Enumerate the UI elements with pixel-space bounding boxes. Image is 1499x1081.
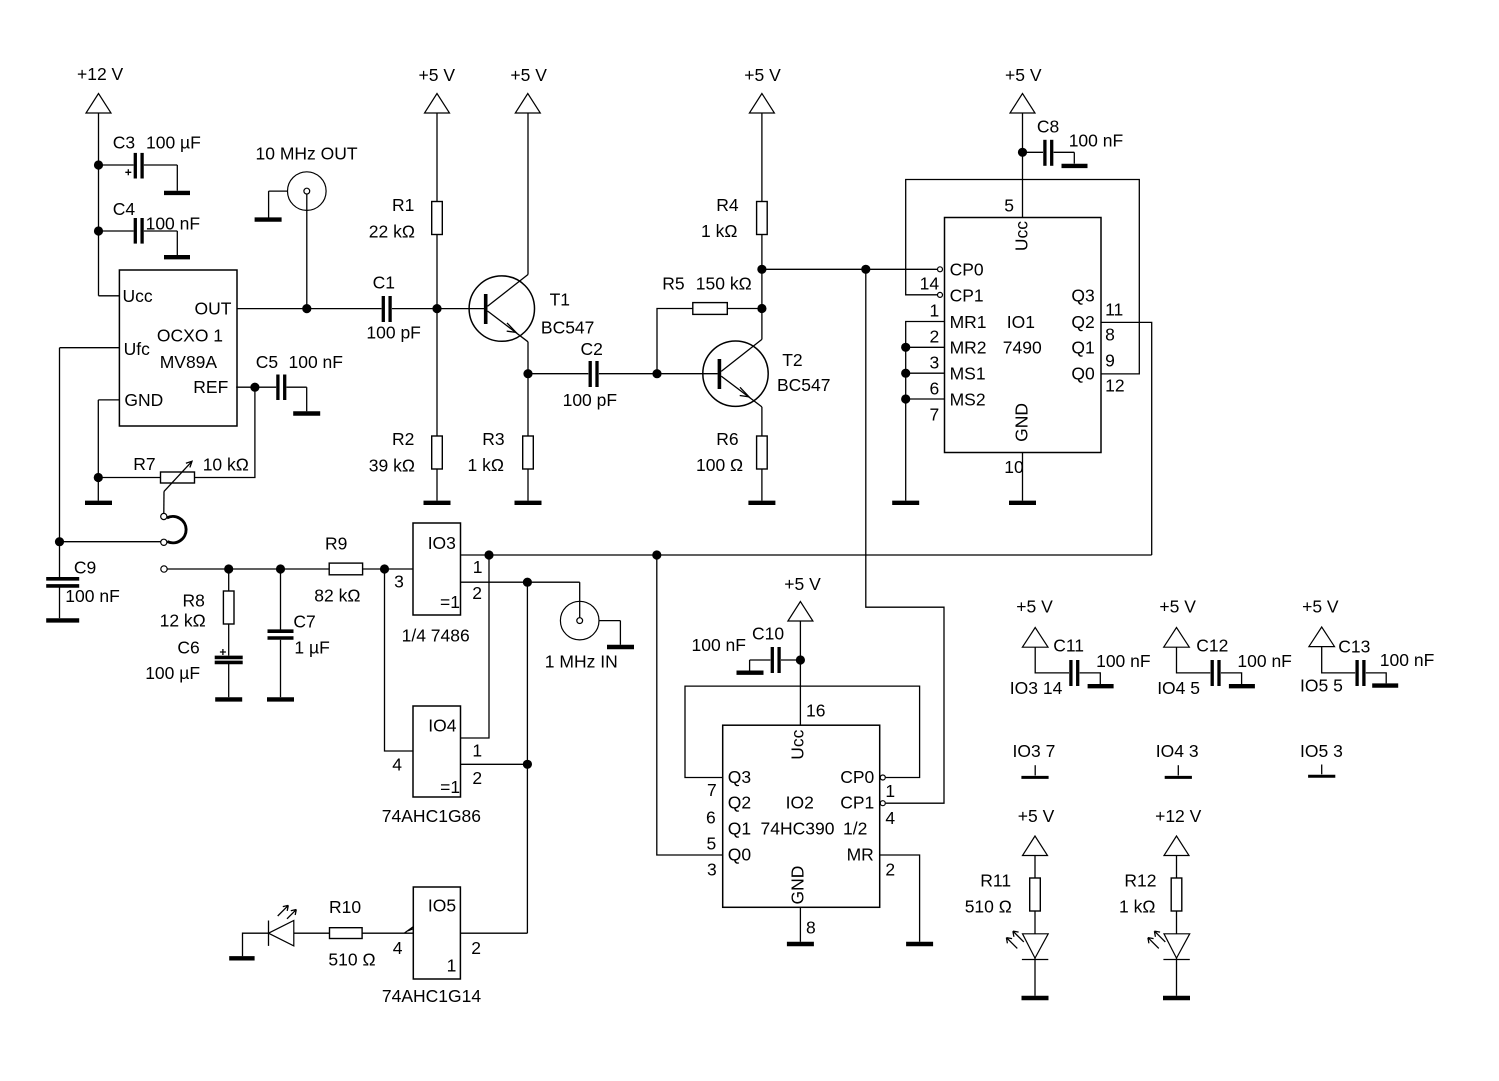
node pin2 branch [523, 578, 532, 587]
svg-text:9: 9 [1105, 351, 1115, 371]
svg-text:74AHC1G86: 74AHC1G86 [382, 806, 481, 826]
node R8 tap [224, 564, 233, 573]
svg-text:10 kΩ: 10 kΩ [203, 455, 249, 475]
svg-text:R8: R8 [183, 591, 205, 611]
node C7 tap [276, 564, 285, 573]
node CP1-feed branch [861, 265, 870, 274]
ground stub (IO5 pin3) [1308, 765, 1335, 777]
svg-text:2: 2 [472, 768, 482, 788]
ground (C12) [1229, 684, 1255, 688]
resistor R11 510 [965, 856, 1041, 960]
wire +12V rail down to OCXO Ucc [98, 113, 100, 296]
svg-text:+5 V: +5 V [1159, 597, 1196, 617]
svg-text:IO5: IO5 [428, 896, 456, 916]
svg-text:MS2: MS2 [950, 389, 986, 409]
svg-text:1: 1 [473, 557, 483, 577]
ground (C11) [1088, 684, 1114, 688]
svg-text:R4: R4 [716, 195, 739, 215]
node IO3 pin3 / IO4 branch [380, 564, 389, 573]
svg-text:C11: C11 [1053, 636, 1084, 656]
svg-text:IO5 3: IO5 3 [1300, 741, 1343, 761]
svg-text:Ucc: Ucc [788, 729, 808, 759]
ground (C10) [737, 671, 764, 675]
svg-text:10 MHz OUT: 10 MHz OUT [256, 144, 358, 164]
svg-text:OCXO 1: OCXO 1 [157, 326, 223, 346]
node Ufc / jumper junction [55, 537, 64, 546]
wire IO4 pin2 to vertical rail [461, 763, 528, 765]
svg-text:REF: REF [193, 377, 228, 397]
svg-text:Q0: Q0 [1071, 364, 1095, 384]
svg-text:7490: 7490 [1003, 338, 1042, 358]
svg-text:4: 4 [393, 938, 403, 958]
node C8 tap [1018, 148, 1027, 157]
capacitor C6 100uF [145, 637, 243, 697]
node IO4 pin2 junction [523, 760, 532, 769]
node MS1 tap [901, 369, 910, 378]
resistor R1 22k [369, 195, 443, 242]
pin CP0 open circle [938, 267, 943, 272]
oscillator OCXO1 MV89A box [119, 270, 237, 426]
resistor R4 1k [701, 113, 767, 241]
wire Q3 pin7 loop to CP0 pin1 [685, 686, 920, 777]
node C1/T1 base junction [432, 304, 441, 313]
svg-text:BC547: BC547 [541, 318, 595, 338]
wire Q0 pin3 up to pin1 line [657, 555, 723, 855]
svg-text:+12 V: +12 V [1155, 806, 1202, 826]
svg-text:1: 1 [930, 301, 940, 321]
svg-text:1/2: 1/2 [843, 819, 867, 839]
power +5V (C11) [1016, 597, 1053, 648]
svg-text:MR2: MR2 [950, 338, 987, 358]
svg-text:2: 2 [930, 327, 940, 347]
svg-text:100 nF: 100 nF [65, 586, 119, 606]
svg-text:C4: C4 [113, 199, 136, 219]
capacitor C7 1uF [268, 569, 330, 697]
wire T2 emitter to R6 [761, 407, 763, 436]
gate IO5 (74AHC1G14) [382, 887, 481, 1006]
ground (C3) [164, 191, 190, 195]
svg-text:C3: C3 [113, 132, 135, 152]
svg-text:8: 8 [806, 918, 816, 938]
svg-text:100 nF: 100 nF [1096, 651, 1150, 671]
svg-text:C13: C13 [1338, 637, 1370, 657]
svg-text:3: 3 [707, 860, 717, 880]
wire R1 to R2 [436, 235, 438, 437]
svg-text:CP0: CP0 [840, 767, 874, 787]
svg-text:C12: C12 [1196, 636, 1228, 656]
svg-text:100 nF: 100 nF [1380, 650, 1434, 670]
wire MR1/MR2/MS1/MS2 rail to ground [906, 322, 945, 501]
ground (C13) [1372, 683, 1398, 687]
svg-text:GND: GND [124, 390, 163, 410]
svg-text:6: 6 [706, 808, 716, 828]
svg-text:510 Ω: 510 Ω [328, 949, 375, 969]
svg-text:10: 10 [1004, 457, 1024, 477]
power +5V (C8/IO1) [1005, 65, 1042, 113]
power +12V (top left) [77, 64, 124, 113]
node C10 tap [796, 655, 805, 664]
svg-text:1 µF: 1 µF [294, 638, 329, 658]
ground (C6) [215, 697, 242, 701]
svg-text:11: 11 [1105, 300, 1123, 320]
svg-text:R9: R9 [325, 534, 347, 554]
svg-text:16: 16 [806, 701, 825, 721]
connector 10 MHz OUT [256, 144, 358, 218]
svg-text:12: 12 [1105, 376, 1124, 396]
resistor R12 1k [1119, 856, 1182, 960]
power +5V (R1) [419, 65, 456, 113]
svg-text:150 kΩ: 150 kΩ [696, 273, 752, 293]
node C4 tap [94, 226, 103, 235]
pin CP1 open circle (IO2) [880, 801, 885, 806]
svg-text:MR: MR [847, 845, 874, 865]
svg-text:8: 8 [1105, 325, 1115, 345]
svg-text:1/4 7486: 1/4 7486 [402, 626, 470, 646]
wire +5V to IO2 Ucc pin 16 [799, 621, 801, 725]
ground (R2) [424, 501, 451, 505]
svg-text:MR1: MR1 [950, 312, 987, 332]
svg-text:R5: R5 [662, 273, 684, 293]
svg-text:C2: C2 [581, 339, 603, 359]
resistor R2 39k [369, 429, 443, 501]
resistor R5 150k [662, 273, 762, 314]
svg-text:CP0: CP0 [950, 260, 984, 280]
pin CP1 open circle [938, 292, 943, 297]
wire IO1 GND pin 10 [1022, 453, 1024, 501]
resistor R3 1k [468, 429, 534, 501]
capacitor C9 100nF [46, 558, 120, 619]
wire +5V to R1 [436, 113, 438, 202]
svg-text:R11: R11 [980, 871, 1011, 891]
svg-text:3: 3 [394, 572, 404, 592]
svg-text:+5 V: +5 V [784, 574, 821, 594]
wire LED R11 to ground [1034, 960, 1036, 996]
svg-text:C10: C10 [752, 624, 784, 644]
svg-text:6: 6 [930, 379, 940, 399]
svg-text:4: 4 [885, 808, 895, 828]
svg-text:Q0: Q0 [728, 845, 752, 865]
wire pin2 vertical rail down to IO5 [526, 582, 528, 933]
power +5V (R4) [744, 65, 781, 113]
wire OUT pin to C1 [237, 308, 382, 310]
capacitor C4 100nF [99, 199, 201, 255]
svg-text:C1: C1 [373, 273, 395, 293]
ground (IO2 MR) [906, 942, 933, 946]
resistor R10 510 [328, 897, 413, 969]
svg-text:1 kΩ: 1 kΩ [468, 455, 504, 475]
wire LED to ground [243, 933, 269, 956]
svg-text:1 kΩ: 1 kΩ [701, 221, 737, 241]
transistor T1 BC547 [437, 275, 594, 342]
ground (C5) [293, 411, 320, 415]
capacitor C10 100nF [692, 624, 801, 674]
node IO4 pin1 branch [484, 550, 493, 559]
power +5V (C12) [1159, 597, 1196, 648]
ground (C4) [164, 255, 190, 259]
svg-text:100 nF: 100 nF [1069, 131, 1123, 151]
node emitter/C2/R3 junction [523, 369, 532, 378]
svg-text:2: 2 [885, 860, 895, 880]
svg-text:Q2: Q2 [728, 793, 751, 813]
svg-text:14: 14 [920, 274, 940, 294]
wire jumper bottom to Ufc rail [64, 541, 161, 543]
wire MR pin2 to ground [880, 855, 920, 942]
wire Ucc pin [99, 295, 120, 297]
node GND/R7 junction [94, 473, 103, 482]
jumper (R7 wiper to Ufc) [161, 513, 186, 545]
node C3 tap [94, 160, 103, 169]
svg-text:+12 V: +12 V [77, 64, 124, 84]
resistor R9 82k [314, 534, 413, 606]
svg-text:C9: C9 [74, 558, 96, 578]
svg-text:C6: C6 [177, 637, 199, 657]
node MR2 tap [901, 343, 910, 352]
capacitor C13 100nF [1322, 637, 1435, 687]
svg-text:Q1: Q1 [1071, 338, 1094, 358]
svg-text:MV89A: MV89A [160, 352, 218, 372]
node open terminal (R9 line start) [161, 566, 167, 572]
svg-text:CP1: CP1 [840, 793, 874, 813]
node REF junction [250, 383, 259, 392]
svg-text:T2: T2 [782, 350, 802, 370]
svg-text:C5: C5 [256, 352, 278, 372]
svg-text:Q3: Q3 [1071, 285, 1094, 305]
svg-text:IO4: IO4 [428, 716, 456, 736]
ground stub (IO3 pin7) [1021, 765, 1048, 777]
capacitor C11 100nF [1035, 636, 1150, 687]
svg-text:T1: T1 [550, 290, 570, 310]
svg-text:R7: R7 [133, 454, 155, 474]
connector 1 MHz IN [545, 582, 621, 671]
LED (R12) [1148, 931, 1190, 959]
svg-text:+5 V: +5 V [1302, 597, 1339, 617]
svg-text:GND: GND [788, 866, 808, 905]
wire +5V to T1 collector [527, 113, 529, 275]
svg-text:1: 1 [447, 956, 457, 976]
ground (LED R12) [1163, 996, 1190, 1000]
wire 10MHz connector down to OUT line [306, 194, 308, 309]
transistor T2 BC547 [657, 339, 831, 407]
svg-text:MS1: MS1 [950, 364, 986, 384]
ground (R3) [515, 501, 542, 505]
wire Ufc pin to left rail [60, 347, 120, 349]
svg-text:R6: R6 [716, 429, 738, 449]
ground (OCXO GND) [85, 501, 112, 505]
wire Q0 pin12 feedback loop to CP1 [906, 180, 1140, 374]
svg-text:IO2: IO2 [786, 793, 814, 813]
svg-text:2: 2 [472, 583, 482, 603]
wire IO4 pin1 up to pin1 line [461, 555, 490, 738]
wire R9 input line [167, 568, 329, 570]
ground (LED R11) [1022, 996, 1049, 1000]
ground (IO1 GND) [1009, 501, 1036, 505]
svg-text:Q1: Q1 [728, 819, 751, 839]
svg-text:100 pF: 100 pF [366, 323, 420, 343]
svg-text:C7: C7 [293, 612, 315, 632]
power +5V (R11) [1018, 806, 1055, 856]
ground (1 MHz IN) [607, 645, 634, 649]
svg-text:1: 1 [472, 741, 482, 761]
svg-text:100 nF: 100 nF [289, 352, 343, 372]
svg-text:100 nF: 100 nF [1237, 651, 1291, 671]
svg-text:OUT: OUT [195, 299, 232, 319]
wire IO2 GND pin 8 [799, 907, 801, 942]
svg-text:22 kΩ: 22 kΩ [369, 222, 415, 242]
node C2/T2 base junction [652, 369, 661, 378]
svg-text:1: 1 [885, 781, 895, 801]
svg-text:4: 4 [392, 755, 402, 775]
svg-text:IO4 3: IO4 3 [1156, 741, 1199, 761]
svg-text:IO4 5: IO4 5 [1157, 678, 1200, 698]
counter IO2 74HC390 box [723, 725, 880, 907]
ground (10 MHz OUT) [255, 217, 282, 221]
svg-text:510 Ω: 510 Ω [965, 896, 1012, 916]
svg-text:=1: =1 [440, 592, 460, 612]
svg-text:+5 V: +5 V [1005, 65, 1042, 85]
node OUT / 10MHz junction [302, 304, 311, 313]
wire IO3 pin2 to 1MHz IN [461, 581, 580, 583]
LED (R11) [1006, 931, 1048, 959]
power +12V (R12) [1155, 806, 1202, 856]
svg-text:BC547: BC547 [777, 375, 831, 395]
wire MS2 pin [906, 398, 945, 400]
svg-text:IO5 5: IO5 5 [1300, 675, 1343, 695]
svg-text:74AHC1G14: 74AHC1G14 [382, 986, 481, 1006]
wire R5 branch up [657, 309, 693, 374]
wire R7 right up to REF [195, 387, 255, 477]
svg-text:+5 V: +5 V [1016, 597, 1053, 617]
svg-text:100 nF: 100 nF [692, 635, 746, 655]
svg-text:Ucc: Ucc [1012, 221, 1032, 251]
svg-text:100 Ω: 100 Ω [696, 455, 743, 475]
svg-text:1 kΩ: 1 kΩ [1119, 896, 1155, 916]
svg-text:+5 V: +5 V [744, 65, 781, 85]
svg-text:IO3: IO3 [428, 533, 456, 553]
wire LED R12 to ground [1176, 960, 1178, 996]
svg-text:GND: GND [1012, 403, 1032, 442]
svg-text:CP1: CP1 [950, 285, 984, 305]
power +5V (C13) [1302, 597, 1339, 647]
wire MS1 pin [906, 372, 945, 374]
svg-text:+5 V: +5 V [1018, 806, 1055, 826]
wire R7 left to GND rail [98, 477, 160, 479]
power +5V (T1) [510, 65, 547, 113]
ground (C8) [1062, 164, 1088, 168]
svg-text:C8: C8 [1037, 117, 1059, 137]
wire MR2 pin [906, 346, 945, 348]
power +5V (C10/IO2) [784, 574, 821, 621]
svg-text:R2: R2 [392, 429, 414, 449]
svg-text:R10: R10 [329, 897, 361, 917]
ground (IO2 GND) [787, 942, 814, 946]
svg-text:IO3 14: IO3 14 [1010, 678, 1063, 698]
capacitor C3 100uF [99, 132, 201, 190]
pin CP0 open circle (IO2) [880, 775, 885, 780]
wire GND pin rail [98, 399, 119, 401]
potentiometer R7 10k [133, 454, 249, 514]
svg-text:39 kΩ: 39 kΩ [369, 455, 415, 475]
wire +5V to IO1 Ucc pin 5 [1022, 113, 1024, 218]
ground stub (IO4 pin3) [1165, 765, 1192, 777]
wire T1 emitter down [527, 342, 529, 436]
svg-text:Q2: Q2 [1071, 312, 1094, 332]
node IO2 Q0 branch [652, 550, 661, 559]
gate IO3 (1/4 7486) [394, 523, 482, 646]
wire T2 collector up to R4 [761, 235, 763, 340]
node R5/T2 collector junction [757, 304, 766, 313]
capacitor C5 100nF [256, 352, 343, 411]
svg-text:100 µF: 100 µF [146, 132, 201, 152]
node MS2 tap [901, 394, 910, 403]
svg-text:R12: R12 [1124, 871, 1156, 891]
svg-text:Ufc: Ufc [124, 339, 151, 359]
svg-text:7: 7 [930, 405, 940, 425]
wire REF pin [236, 386, 276, 388]
svg-text:1 MHz IN: 1 MHz IN [545, 652, 618, 672]
svg-text:82 kΩ: 82 kΩ [314, 586, 360, 606]
ground (C9) [46, 618, 79, 622]
node CP0 branch on collector [757, 265, 766, 274]
wire IO4 pin4 input from R9 node [385, 569, 414, 751]
svg-text:Q3: Q3 [728, 767, 751, 787]
resistor R6 100 [696, 429, 767, 501]
wire IO3 pin1 line (from 7490 Q2) [461, 554, 1152, 556]
svg-text:12 kΩ: 12 kΩ [160, 611, 206, 631]
svg-text:=1: =1 [440, 777, 460, 797]
ground (C7) [267, 697, 294, 701]
wire CP1-feed down to IO2 CP1 [866, 269, 944, 803]
capacitor C8 100nF [1023, 117, 1124, 166]
ground (LED R10) [229, 956, 254, 960]
capacitor C2 100pF [528, 339, 657, 410]
capacitor C12 100nF [1177, 636, 1292, 687]
wire Q2 pin8 out [1101, 322, 1152, 555]
svg-text:R1: R1 [392, 195, 414, 215]
svg-text:+5 V: +5 V [510, 65, 547, 85]
svg-text:Ucc: Ucc [123, 286, 153, 306]
wire CP0 line to IO1 [762, 268, 937, 270]
svg-text:5: 5 [1004, 196, 1014, 216]
svg-text:5: 5 [707, 834, 717, 854]
svg-text:3: 3 [930, 353, 940, 373]
svg-text:7: 7 [707, 780, 717, 800]
svg-text:74HC390: 74HC390 [761, 819, 835, 839]
svg-text:IO3 7: IO3 7 [1013, 741, 1056, 761]
svg-text:IO1: IO1 [1007, 312, 1035, 332]
svg-text:2: 2 [471, 938, 481, 958]
resistor R8 12k [160, 569, 234, 656]
ground (R6) [748, 501, 775, 505]
svg-text:100 µF: 100 µF [145, 663, 200, 683]
counter IO1 7490 box [945, 218, 1102, 453]
LED (R10) [269, 905, 330, 946]
wire IO5 pin2 to vertical rail [460, 932, 527, 934]
svg-text:100 pF: 100 pF [563, 390, 617, 410]
ground (MR rail) [892, 501, 919, 505]
svg-text:+5 V: +5 V [419, 65, 456, 85]
svg-text:R3: R3 [482, 429, 504, 449]
capacitor C1 100pF [366, 273, 437, 343]
gate IO4 (74AHC1G86) [382, 706, 482, 826]
